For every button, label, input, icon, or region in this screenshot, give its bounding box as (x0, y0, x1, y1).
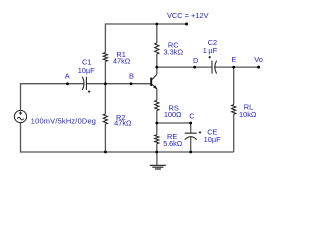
svg-text:10µF: 10µF (78, 66, 95, 75)
svg-text:E: E (232, 55, 237, 64)
svg-text:3.3kΩ: 3.3kΩ (164, 48, 184, 57)
svg-text:47kΩ: 47kΩ (114, 119, 132, 128)
svg-text:47kΩ: 47kΩ (113, 57, 131, 66)
svg-text:VCC = +12V: VCC = +12V (167, 11, 209, 20)
svg-text:5.6kΩ: 5.6kΩ (163, 139, 183, 148)
svg-text:C: C (189, 112, 195, 121)
svg-text:Vo: Vo (254, 55, 263, 64)
svg-text:100Ω: 100Ω (164, 110, 182, 119)
svg-text:100mV/5kHz/0Deg: 100mV/5kHz/0Deg (31, 117, 96, 126)
svg-text:10µF: 10µF (204, 135, 221, 144)
svg-text:A: A (65, 72, 70, 81)
svg-text:B: B (129, 72, 134, 81)
svg-text:10kΩ: 10kΩ (239, 110, 257, 119)
svg-text:1µF: 1µF (203, 46, 218, 55)
svg-text:D: D (193, 56, 198, 65)
